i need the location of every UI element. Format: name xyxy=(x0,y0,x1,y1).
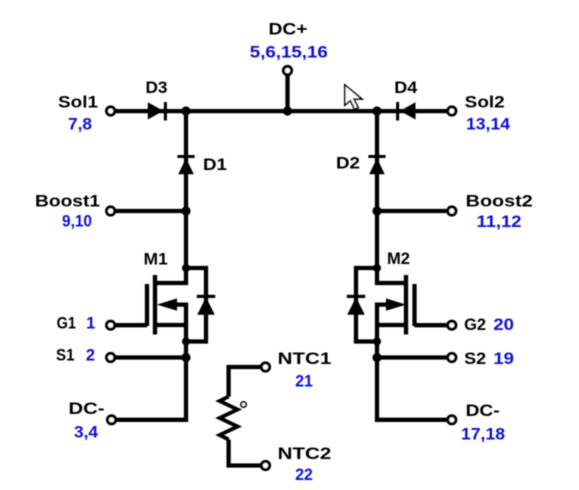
svg-text:19: 19 xyxy=(493,350,514,368)
svg-text:1: 1 xyxy=(86,315,95,333)
svg-text:20: 20 xyxy=(493,316,514,334)
svg-text:13,14: 13,14 xyxy=(466,116,511,134)
svg-text:Sol1: Sol1 xyxy=(58,94,98,112)
svg-text:Sol2: Sol2 xyxy=(465,94,505,112)
svg-text:DC+: DC+ xyxy=(269,20,308,38)
svg-text:D2: D2 xyxy=(336,154,360,172)
svg-text:17,18: 17,18 xyxy=(461,426,505,444)
svg-text:S2: S2 xyxy=(464,350,486,368)
svg-text:7,8: 7,8 xyxy=(68,115,92,133)
svg-text:NTC1: NTC1 xyxy=(278,350,332,368)
svg-text:DC-: DC- xyxy=(69,400,105,418)
svg-text:D3: D3 xyxy=(146,79,168,97)
svg-text:11,12: 11,12 xyxy=(477,213,522,231)
svg-text:M2: M2 xyxy=(387,250,410,268)
svg-text:21: 21 xyxy=(295,373,313,391)
svg-text:DC-: DC- xyxy=(466,402,500,420)
svg-text:D1: D1 xyxy=(203,156,227,174)
svg-text:S1: S1 xyxy=(56,347,75,365)
svg-text:22: 22 xyxy=(295,466,313,484)
svg-text:Boost2: Boost2 xyxy=(466,193,533,211)
svg-text:2: 2 xyxy=(86,347,95,365)
svg-text:G1: G1 xyxy=(57,315,76,333)
svg-text:NTC2: NTC2 xyxy=(278,445,332,463)
svg-text:9,10: 9,10 xyxy=(62,213,92,231)
svg-text:5,6,15,16: 5,6,15,16 xyxy=(250,44,328,62)
svg-text:D4: D4 xyxy=(394,79,418,97)
svg-text:Boost1: Boost1 xyxy=(35,193,100,211)
svg-text:3,4: 3,4 xyxy=(74,424,99,442)
svg-text:G2: G2 xyxy=(464,316,486,334)
svg-text:M1: M1 xyxy=(144,251,168,269)
